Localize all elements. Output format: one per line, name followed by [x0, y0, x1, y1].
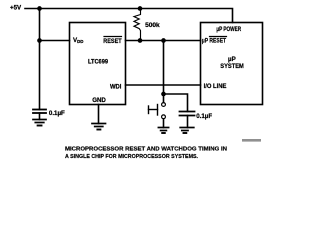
svg-text:VDD: VDD	[73, 37, 83, 44]
svg-text:RESET: RESET	[103, 38, 121, 45]
svg-text:µP RESET: µP RESET	[202, 37, 226, 44]
svg-text:SYSTEM: SYSTEM	[220, 63, 244, 70]
svg-text:500k: 500k	[145, 22, 160, 29]
svg-text:µP POWER: µP POWER	[216, 26, 241, 33]
svg-text:WDI: WDI	[110, 83, 122, 90]
svg-text:GND: GND	[92, 97, 106, 104]
svg-text:LTC699: LTC699	[88, 58, 108, 65]
svg-text:0.1µF: 0.1µF	[49, 110, 65, 117]
svg-text:A SINGLE CHIP FOR MICROPROCESS: A SINGLE CHIP FOR MICROPROCESSOR SYSTEMS…	[65, 154, 198, 160]
svg-text:I/O LINE: I/O LINE	[204, 83, 227, 90]
svg-text:MICROPROCESSOR RESET AND WATCH: MICROPROCESSOR RESET AND WATCHDOG TIMING…	[65, 147, 227, 153]
svg-text:0.1µF: 0.1µF	[196, 113, 212, 120]
svg-text:+5V: +5V	[10, 5, 22, 12]
